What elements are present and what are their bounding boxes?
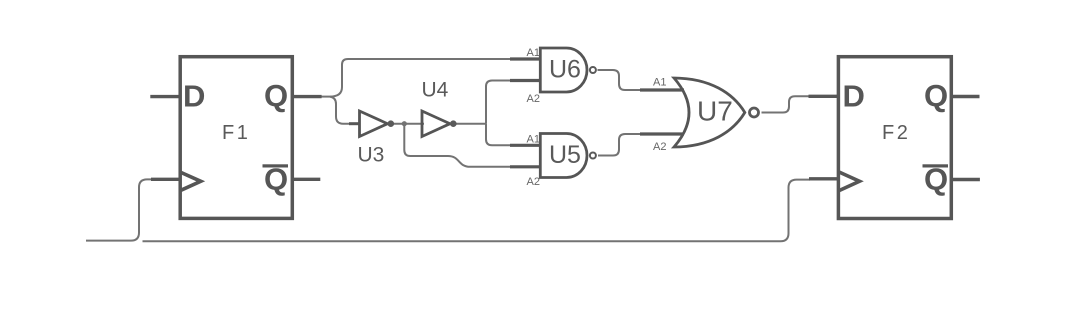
svg-text:A2: A2 xyxy=(653,141,666,153)
F1 clock triangle xyxy=(180,172,201,191)
wire split up to U6 A1 xyxy=(330,59,512,97)
inverter U4 xyxy=(422,111,450,137)
nor gate U7 body xyxy=(674,78,745,147)
wire U6 out to U7 A1 xyxy=(598,70,643,90)
Qbar overline F1 xyxy=(263,164,289,167)
wire split up to U6 A2 xyxy=(486,81,512,124)
svg-text:A2: A2 xyxy=(527,176,540,188)
Qbar overline F2 xyxy=(923,164,949,167)
wire F1.Q to split xyxy=(320,96,330,98)
junction dot xyxy=(402,121,407,126)
F2 clock triangle xyxy=(839,172,860,191)
flip-flop F2 box xyxy=(838,57,951,219)
U4 output dot xyxy=(450,120,457,127)
svg-text:D: D xyxy=(843,79,865,114)
svg-text:U5: U5 xyxy=(549,141,581,169)
svg-text:A1: A1 xyxy=(527,134,540,146)
svg-text:U3: U3 xyxy=(358,144,385,167)
wire U5 out to U7 A2 xyxy=(598,134,642,156)
pin stub F1 clk xyxy=(151,178,181,181)
wire U7 out to F2 D xyxy=(762,96,811,112)
svg-text:Q: Q xyxy=(264,78,288,113)
pin stub F1 Qbar xyxy=(291,178,320,181)
svg-text:U7: U7 xyxy=(697,96,733,127)
wire U4 out to split xyxy=(455,123,486,125)
pin stub U5 A2 xyxy=(510,165,541,168)
pin stub U5 A1 xyxy=(510,144,541,147)
nand gate U6 body xyxy=(540,48,587,92)
pin stub F2 Qbar xyxy=(951,178,980,181)
nand gate U5 body xyxy=(540,134,587,178)
inverter U3 xyxy=(360,111,388,137)
pin stub U7 A1 xyxy=(640,88,684,91)
svg-text:D: D xyxy=(183,79,205,114)
wire clock source to F1 clk xyxy=(86,179,153,240)
pin stub U7 A2 xyxy=(640,132,684,135)
U7 output bubble xyxy=(750,108,759,117)
svg-text:U6: U6 xyxy=(549,56,581,84)
pin stub U6 A2 xyxy=(510,79,541,82)
svg-text:A1: A1 xyxy=(527,47,540,59)
pin stub U6 A1 xyxy=(510,57,541,60)
svg-text:F1: F1 xyxy=(222,122,250,144)
svg-text:Q: Q xyxy=(924,78,948,113)
svg-text:A1: A1 xyxy=(653,77,666,89)
svg-text:F2: F2 xyxy=(882,122,910,144)
pin stub F2 clk xyxy=(809,177,839,180)
wire U3 out to U4 in xyxy=(392,123,424,125)
wire split down to U3 input xyxy=(330,97,352,124)
pin stub U3 in xyxy=(349,122,360,125)
wire clock bus to F2 clk xyxy=(143,180,811,242)
wire junction down to U5 A2 xyxy=(404,124,512,167)
wire split down to U5 A1 xyxy=(486,124,512,146)
flip-flop F1 box xyxy=(180,57,292,219)
svg-text:A2: A2 xyxy=(527,93,540,105)
U6 output bubble xyxy=(590,67,596,73)
pin stub F1 D xyxy=(150,95,181,98)
pin stub F1 Q xyxy=(291,95,322,98)
svg-text:U4: U4 xyxy=(422,79,449,102)
pin stub F2 Q xyxy=(951,95,980,98)
U5 output bubble xyxy=(590,153,596,159)
pin stub F2 D xyxy=(809,95,840,98)
U3 output dot xyxy=(388,120,395,127)
